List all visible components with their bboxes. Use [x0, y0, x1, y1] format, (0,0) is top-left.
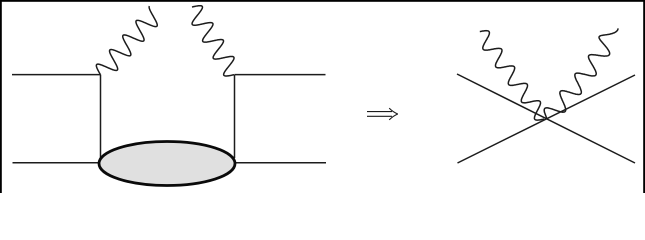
implies arrow [367, 111, 392, 113]
photon gamma1p (left) [480, 31, 544, 120]
top-right fermion line [235, 74, 326, 76]
fermion line A (NW-SE) [457, 74, 635, 163]
photon gamma1 (left) [96, 6, 157, 74]
fermion line B (SW-NE) [458, 75, 636, 163]
right vertical quark line [234, 75, 236, 158]
photon gamma2p (right) [544, 28, 618, 118]
bottom-right fermion line [236, 162, 326, 164]
frame top border [0, 0, 645, 2]
left vertical quark line [100, 75, 102, 158]
top-left fermion line [12, 74, 101, 76]
frame left border [0, 0, 2, 193]
blob ellipse [99, 142, 235, 186]
bottom-left fermion line [13, 162, 101, 164]
frame right border [643, 0, 645, 193]
photon gamma2 (right) [192, 6, 234, 76]
